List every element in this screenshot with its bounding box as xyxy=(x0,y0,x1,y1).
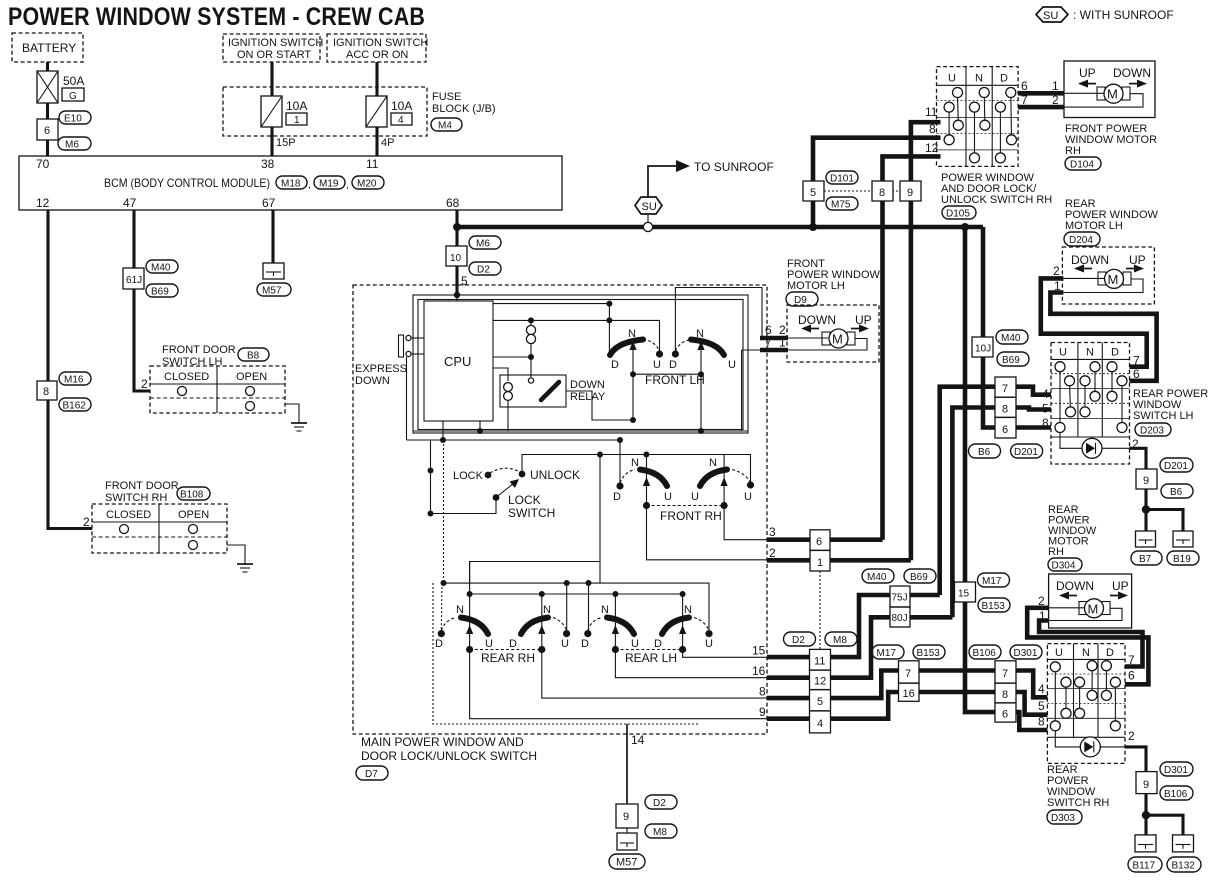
wire pin2 to box1 xyxy=(767,558,810,563)
svg-text:M: M xyxy=(1108,272,1119,287)
svg-text:B106: B106 xyxy=(973,648,997,659)
connector box 6 on wire12 xyxy=(37,381,57,400)
front rh wiper1 arrow xyxy=(643,455,650,510)
svg-text:M6: M6 xyxy=(65,140,79,151)
rear power window switch LH grid xyxy=(1051,343,1130,465)
svg-text:1: 1 xyxy=(1052,79,1059,93)
BCM body control module box xyxy=(19,156,562,210)
ignition switch on/start box xyxy=(223,34,323,62)
inner line b xyxy=(407,439,621,441)
coil (express relay) xyxy=(526,325,535,343)
ground M57 (pin14) xyxy=(617,833,637,850)
connector box 5 xyxy=(803,181,824,201)
svg-text:8: 8 xyxy=(1002,689,1008,701)
svg-text:ON OR START: ON OR START xyxy=(237,49,311,61)
svg-text:D: D xyxy=(435,638,443,650)
svg-text:SWITCH LH: SWITCH LH xyxy=(1133,410,1194,422)
svg-text:U: U xyxy=(948,73,956,85)
CPU box xyxy=(424,301,493,421)
rear power window motor RH xyxy=(1049,574,1132,628)
wire ign2 to fuse xyxy=(375,62,378,96)
motor LH pin labels xyxy=(1053,264,1061,293)
rear rail B xyxy=(470,561,683,594)
svg-text:2: 2 xyxy=(1053,264,1060,278)
wire wiper link xyxy=(633,373,701,375)
wire fuse1 to BCM pin 38 xyxy=(270,127,273,156)
connector B69 (75J) xyxy=(904,569,936,583)
svg-text:D101: D101 xyxy=(830,174,854,185)
svg-text:7: 7 xyxy=(1002,383,1008,395)
svg-text:7: 7 xyxy=(765,336,772,350)
node wiper2 mid xyxy=(698,371,704,377)
wire rear motor rh pin2 to rh grid pin6 xyxy=(1027,608,1148,685)
rear lh wiper1 arrow xyxy=(612,594,619,653)
wire lh stack7 to grid pin4 xyxy=(1016,387,1051,395)
rear group box xyxy=(470,562,600,584)
rear lh switch arc1 xyxy=(581,604,639,650)
svg-text:D304: D304 xyxy=(1052,561,1076,572)
pw switch RH label xyxy=(941,172,1052,206)
wire pin5 to CPU xyxy=(456,295,458,301)
rear rh wiper dashed link xyxy=(470,649,542,651)
svg-text:9: 9 xyxy=(1143,779,1149,791)
pin 6 wire to motor lh xyxy=(760,336,788,341)
svg-text:11: 11 xyxy=(925,105,938,119)
svg-text:U: U xyxy=(705,638,713,650)
wire express down feed xyxy=(406,357,408,440)
connector D304 xyxy=(1048,558,1082,572)
front lh switch arc2 xyxy=(669,328,736,371)
svg-text:B132: B132 xyxy=(1172,861,1196,872)
svg-text:UNLOCK: UNLOCK xyxy=(530,468,580,482)
svg-text:8: 8 xyxy=(43,386,49,398)
wire box9 down across bus xyxy=(909,201,914,560)
wire grid pin6 to motor rh xyxy=(1018,91,1064,96)
svg-text:D104: D104 xyxy=(1070,160,1094,171)
wire cpu to relay coil xyxy=(493,368,508,381)
svg-text:M57: M57 xyxy=(262,286,282,297)
connector B69 xyxy=(146,284,178,298)
wire box9 rh to grounds xyxy=(1144,794,1147,835)
svg-text:DOWN: DOWN xyxy=(355,375,390,387)
sunroof SU symbol xyxy=(635,197,662,222)
wire 60J right to riser xyxy=(910,615,952,620)
svg-text:6: 6 xyxy=(1002,424,1008,436)
svg-text:TO SUNROOF: TO SUNROOF xyxy=(694,160,774,174)
svg-text:2: 2 xyxy=(1052,93,1059,107)
connector M8 (pin14) xyxy=(645,824,677,838)
svg-text:N: N xyxy=(709,457,717,469)
svg-text:LOCK: LOCK xyxy=(453,470,484,482)
ground (front door switch LH) xyxy=(291,423,307,431)
svg-text:4: 4 xyxy=(1038,682,1045,696)
connector M18 xyxy=(276,176,311,191)
svg-text:1: 1 xyxy=(294,115,300,126)
svg-text:D: D xyxy=(669,359,677,371)
node front lh contact d xyxy=(672,350,679,357)
svg-text:2: 2 xyxy=(141,377,148,391)
svg-text:5: 5 xyxy=(810,187,816,199)
svg-text:D301: D301 xyxy=(1014,648,1038,659)
svg-text:B106: B106 xyxy=(1164,789,1188,800)
svg-text:REAR LH: REAR LH xyxy=(625,651,677,665)
front power window motor LH label xyxy=(787,258,880,292)
svg-text:D: D xyxy=(613,491,621,503)
svg-text:N: N xyxy=(1086,347,1094,359)
svg-text:UNLOCK SWITCH RH: UNLOCK SWITCH RH xyxy=(941,194,1052,206)
svg-text:12: 12 xyxy=(814,676,826,688)
svg-text:D2: D2 xyxy=(653,798,666,809)
node rail/down2 xyxy=(643,452,649,458)
front lh wiper1 arrow xyxy=(629,341,636,420)
connector B117 xyxy=(1128,857,1162,872)
svg-text:50A: 50A xyxy=(63,74,84,88)
svg-text:FRONT DOOR: FRONT DOOR xyxy=(105,480,179,492)
wire box16 to rh stack8 xyxy=(919,690,995,695)
svg-text:DOOR LOCK/UNLOCK SWITCH: DOOR LOCK/UNLOCK SWITCH xyxy=(361,749,537,763)
ground B7 xyxy=(1136,531,1156,547)
wire 10J down to lh stack box6 xyxy=(983,357,995,428)
wire bus branch down to main switch pin 5 xyxy=(455,227,458,295)
inner line a xyxy=(413,430,748,432)
wire BCM pin67 to ground xyxy=(271,210,274,263)
wire fuse4 to BCM pin 11 xyxy=(375,127,378,156)
connector M8 (stack) xyxy=(825,632,857,646)
node arc1 feed xyxy=(606,301,612,307)
connector M75 xyxy=(826,197,858,211)
svg-text:SU: SU xyxy=(642,201,657,213)
svg-text:M18: M18 xyxy=(281,179,301,190)
rear power window switch RH grid xyxy=(1047,644,1125,764)
fusible link 50A xyxy=(37,71,84,103)
svg-text:U: U xyxy=(561,638,569,650)
relay contact circle xyxy=(528,378,533,383)
wire front rh wiper1 to pin2 xyxy=(647,506,768,560)
wire lh stack6 to grid pin8 xyxy=(1016,425,1051,430)
svg-text:M8: M8 xyxy=(653,827,667,838)
wire rail A stub1 xyxy=(566,583,568,630)
connector B8 xyxy=(238,348,269,362)
svg-text:16: 16 xyxy=(752,664,766,678)
svg-text:8: 8 xyxy=(1002,404,1008,416)
wire front rh wiper2 to pin3 xyxy=(724,506,767,540)
lh grid pin labels xyxy=(1042,354,1140,452)
svg-text:RH: RH xyxy=(1048,546,1064,558)
svg-text:16: 16 xyxy=(903,688,915,700)
svg-text:,: , xyxy=(308,180,311,191)
svg-text:7: 7 xyxy=(1133,354,1140,368)
wire rail down to rear group xyxy=(599,455,601,584)
svg-text:UP: UP xyxy=(1079,66,1096,80)
front door switch RH label xyxy=(105,480,179,504)
lock switch label xyxy=(508,493,555,520)
svg-text:9: 9 xyxy=(759,705,766,719)
ground M57 (BCM) xyxy=(263,263,284,279)
svg-text:M4: M4 xyxy=(438,121,452,132)
connector D2 (wire 68) xyxy=(469,262,501,276)
svg-text:MOTOR LH: MOTOR LH xyxy=(787,280,845,292)
wire grid pin7 to motor rh xyxy=(1018,105,1064,110)
svg-text:IGNITION SWITCH: IGNITION SWITCH xyxy=(228,37,323,49)
svg-text:4: 4 xyxy=(817,718,823,730)
svg-text:U: U xyxy=(728,359,736,371)
connector M57 (pin14) xyxy=(609,854,645,869)
fuse 10A no.1 xyxy=(261,96,307,127)
node cpu stub b xyxy=(440,421,446,443)
svg-text:75J: 75J xyxy=(892,593,908,604)
svg-text:N: N xyxy=(975,73,983,85)
connector B7 xyxy=(1131,551,1162,565)
connector D105 xyxy=(942,206,976,220)
wire relay out to wiper1 xyxy=(566,391,633,420)
svg-text:D: D xyxy=(654,638,662,650)
svg-text:B6: B6 xyxy=(1170,487,1183,498)
svg-text:B69: B69 xyxy=(151,287,169,298)
svg-text:CLOSED: CLOSED xyxy=(106,509,151,521)
connector box 9 xyxy=(900,181,921,201)
connector M6 xyxy=(58,137,91,151)
svg-text:80J: 80J xyxy=(892,613,908,624)
svg-text:SWITCH RH: SWITCH RH xyxy=(105,492,167,504)
wire relay coil to bottom xyxy=(507,400,509,431)
wire pin8 to stack5 xyxy=(767,696,810,701)
svg-text:6: 6 xyxy=(1133,367,1140,381)
wire rh stack6 to rh grid pin8 xyxy=(1016,712,1047,730)
wire battery to fusible link xyxy=(46,62,49,71)
connector B106 (gnd rh) xyxy=(1160,786,1193,800)
svg-text:67: 67 xyxy=(262,196,276,210)
svg-text:N: N xyxy=(601,604,609,616)
wire box9 to ground xyxy=(626,828,628,833)
connector box 10J xyxy=(972,337,993,357)
svg-text:7: 7 xyxy=(1128,653,1135,667)
node rail/down1 xyxy=(597,452,603,458)
svg-text:N: N xyxy=(456,604,464,616)
svg-text:FRONT RH: FRONT RH xyxy=(660,509,722,523)
wire rear rh wiper2 to pin8 xyxy=(542,650,767,699)
svg-text:B69: B69 xyxy=(1002,355,1020,366)
front door switch RH body xyxy=(83,504,227,553)
connector B106 (rh stack) xyxy=(969,645,1001,659)
wire coil branch xyxy=(530,320,532,325)
front door switch LH body xyxy=(141,366,285,413)
rear rail A xyxy=(444,583,710,630)
wire line b down to front rh d-contact xyxy=(619,440,621,486)
svg-text:15: 15 xyxy=(958,589,970,600)
svg-text:M: M xyxy=(1107,87,1118,102)
front rh switch arc2 xyxy=(691,457,754,503)
svg-text:D204: D204 xyxy=(1069,235,1093,246)
svg-text:M57: M57 xyxy=(616,857,637,869)
wire rail A dashed drop xyxy=(440,583,443,630)
svg-text:2: 2 xyxy=(83,515,90,529)
svg-text:68: 68 xyxy=(446,196,460,210)
connector box 9 (lh) xyxy=(1136,469,1157,489)
svg-text:SWITCH: SWITCH xyxy=(508,506,555,520)
svg-text:B162: B162 xyxy=(63,401,87,412)
svg-text:MOTOR LH: MOTOR LH xyxy=(1065,220,1123,232)
svg-text:2: 2 xyxy=(769,546,776,560)
node lock feed b xyxy=(428,511,434,517)
front rh switch arc1 xyxy=(613,457,672,503)
connector E10 xyxy=(59,111,91,125)
svg-text:8: 8 xyxy=(879,187,885,199)
rear power window motor LH xyxy=(1062,247,1154,304)
svg-text:B153: B153 xyxy=(982,601,1006,612)
connector box 9 (pin14) xyxy=(616,804,638,828)
svg-text:11: 11 xyxy=(814,656,825,668)
connector box 6 xyxy=(37,119,58,140)
connector M19 xyxy=(314,176,349,191)
connector box 10 xyxy=(446,246,467,266)
svg-text:N: N xyxy=(543,604,551,616)
node rail B d4 xyxy=(680,591,686,597)
svg-text:3: 3 xyxy=(769,525,776,539)
svg-text:M17: M17 xyxy=(877,648,897,659)
front motor RH label xyxy=(1065,123,1157,157)
connector box 6 (pin3) xyxy=(810,530,830,551)
rear lh wiper2 arrow xyxy=(679,594,686,653)
rh grid diode xyxy=(1055,731,1125,757)
svg-text:B8: B8 xyxy=(247,351,260,362)
svg-text:U: U xyxy=(1055,647,1063,659)
connector D301 (rh stack) xyxy=(1010,645,1042,659)
fuse id box 4 xyxy=(391,113,412,126)
svg-text:G: G xyxy=(69,91,77,102)
wire unlock to top rail xyxy=(522,455,751,483)
svg-text:CPU: CPU xyxy=(444,354,471,369)
node gnd junction lh xyxy=(1142,505,1150,513)
node rail A mid1 xyxy=(564,580,570,586)
wire pin9 to stack4 xyxy=(767,716,810,721)
svg-text:11: 11 xyxy=(366,157,379,171)
lh stack boxes 7/8/6 xyxy=(995,377,1016,438)
connector D201 (gnd lh) xyxy=(1160,458,1193,472)
svg-text:10A: 10A xyxy=(391,99,412,113)
svg-text:9: 9 xyxy=(623,811,629,823)
svg-text:61J: 61J xyxy=(126,275,142,286)
svg-text:5: 5 xyxy=(1038,699,1045,713)
svg-text:7: 7 xyxy=(905,668,911,680)
wire box1 to riser xyxy=(830,558,911,563)
svg-text:M40: M40 xyxy=(867,572,887,583)
svg-text:D: D xyxy=(1000,73,1008,85)
wire rear motor rh pin1 to rh grid pin7 xyxy=(1039,621,1142,667)
ignition switch acc/on box xyxy=(327,34,428,62)
ground (front door switch RH) xyxy=(237,564,253,572)
connector B19 xyxy=(1167,551,1199,565)
connector D204 xyxy=(1064,232,1100,246)
svg-text:U: U xyxy=(744,491,752,503)
connector B108 xyxy=(177,487,210,501)
wire rh stack8 to rh grid pin5 xyxy=(1016,692,1047,715)
rear motor RH label xyxy=(1048,504,1097,558)
connector M40 xyxy=(146,260,178,274)
riser 75J to lh stack 7 xyxy=(940,387,995,595)
svg-text:M75: M75 xyxy=(831,200,851,211)
svg-text:M20: M20 xyxy=(357,179,377,190)
wire rh stack7 to rh grid pin4 xyxy=(1016,671,1047,698)
dashed wire box1 to box11 xyxy=(819,571,821,649)
stack boxes 11/12/5/4 xyxy=(810,649,831,733)
node cpu stub a xyxy=(477,421,483,434)
wire cpu line2 to contact u xyxy=(493,320,660,353)
connector B69 (10J) xyxy=(997,352,1029,366)
node rail B d3 xyxy=(612,591,618,597)
wire rail A stub2 xyxy=(588,583,590,630)
bus corner down to 10J xyxy=(981,227,986,337)
rear rh wiper1 arrow xyxy=(466,594,473,653)
ground B117 xyxy=(1135,835,1156,852)
connector B132 xyxy=(1167,857,1201,872)
connector D303 xyxy=(1047,810,1082,824)
svg-text:EXPRESS: EXPRESS xyxy=(355,363,407,375)
wire box5 up to pin8 xyxy=(813,138,941,181)
svg-text:D: D xyxy=(1111,347,1119,359)
svg-text:N: N xyxy=(631,457,639,469)
wire RH switch to ground xyxy=(227,545,245,564)
svg-text:: WITH SUNROOF: : WITH SUNROOF xyxy=(1073,8,1174,22)
express down switch xyxy=(399,335,425,357)
connector M57 xyxy=(257,283,291,297)
svg-text:M19: M19 xyxy=(319,179,339,190)
connector box 15 xyxy=(955,582,976,602)
svg-text:SWITCH RH: SWITCH RH xyxy=(1047,797,1109,809)
svg-text:SU: SU xyxy=(1043,10,1058,22)
wire to ground B132 xyxy=(1146,815,1183,835)
svg-text:N: N xyxy=(696,328,704,340)
node sunroof tap xyxy=(643,222,652,231)
svg-text:RELAY: RELAY xyxy=(570,391,606,403)
fuse block label xyxy=(432,91,496,115)
connector D104 xyxy=(1065,157,1101,171)
wire lh stack8 to grid pin5 xyxy=(1016,408,1051,410)
connector D301 (gnd rh) xyxy=(1160,762,1193,776)
wire lh grid pin2 to box9 xyxy=(1130,448,1147,469)
svg-text:10A: 10A xyxy=(286,99,307,113)
node rail A mid2 xyxy=(586,580,592,586)
rear rh switch arc1 xyxy=(435,604,493,650)
svg-text:N: N xyxy=(684,604,692,616)
svg-text:M: M xyxy=(832,332,843,347)
svg-text:M16: M16 xyxy=(64,375,84,386)
battery box xyxy=(12,33,83,62)
fuse 10A no.4 xyxy=(366,96,412,127)
svg-text:M: M xyxy=(1088,601,1099,616)
svg-text:CLOSED: CLOSED xyxy=(164,371,209,383)
wire rear lh wiper2 to pin15 xyxy=(683,650,767,658)
svg-text:DOWN: DOWN xyxy=(1071,253,1109,267)
svg-text:6: 6 xyxy=(1002,709,1008,721)
connector M17 (7/16) xyxy=(872,645,904,659)
fuse block dashed box xyxy=(223,87,427,136)
node rail A left xyxy=(441,580,447,586)
connector B153 (7/16) xyxy=(913,645,945,659)
connector box 61J on wire47 xyxy=(123,268,144,289)
front rh wiper2 arrow xyxy=(721,455,728,510)
svg-text:IGNITION SWITCH: IGNITION SWITCH xyxy=(333,37,428,49)
svg-text:BCM (BODY CONTROL MODULE): BCM (BODY CONTROL MODULE) xyxy=(104,176,270,190)
wire BCM pin47 down to front door switch LH xyxy=(134,210,150,391)
svg-text:DOWN: DOWN xyxy=(1056,579,1094,593)
wire 75J right to riser xyxy=(910,593,940,598)
connector B153 (15) xyxy=(978,598,1010,612)
node junction 68/bus xyxy=(453,223,461,231)
svg-text:B6: B6 xyxy=(978,447,991,458)
wire LH switch to ground xyxy=(285,404,299,423)
rear lh switch arc2 xyxy=(654,604,713,650)
rear switch RH label xyxy=(1047,764,1109,809)
